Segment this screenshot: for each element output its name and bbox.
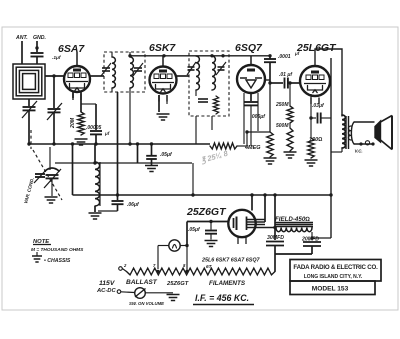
- svg-text:130Ω: 130Ω: [309, 137, 323, 143]
- svg-text:20MFD: 20MFD: [301, 237, 319, 243]
- svg-text:LONG ISLAND CITY, N.Y.: LONG ISLAND CITY, N.Y.: [304, 274, 363, 280]
- svg-text:.0001: .0001: [278, 54, 291, 60]
- svg-text:AC-DC: AC-DC: [96, 288, 116, 294]
- svg-text:MODEL 153: MODEL 153: [312, 286, 349, 293]
- svg-text:6SA7: 6SA7: [58, 43, 85, 55]
- svg-text:8: 8: [183, 263, 186, 268]
- svg-text:6SK7: 6SK7: [149, 42, 176, 54]
- svg-text:M = THOUSAND OHMS: M = THOUSAND OHMS: [31, 247, 84, 253]
- svg-text:.00005: .00005: [86, 125, 102, 131]
- svg-text:μf: μf: [104, 131, 110, 136]
- svg-text:25L6GT: 25L6GT: [296, 42, 337, 54]
- svg-text:GND.: GND.: [33, 35, 46, 41]
- svg-text:μf: μf: [294, 51, 300, 56]
- svg-text:FILAMENTS: FILAMENTS: [209, 280, 246, 287]
- svg-text:115V: 115V: [99, 280, 116, 287]
- svg-text:250M: 250M: [275, 102, 289, 108]
- svg-text:500M: 500M: [276, 123, 289, 129]
- svg-text:ANT.: ANT.: [15, 35, 28, 41]
- svg-text:30MFD: 30MFD: [267, 235, 284, 241]
- svg-text:25L6 6SK7 6SA7 6SQ7: 25L6 6SK7 6SA7 6SQ7: [201, 258, 261, 264]
- svg-text:• CHASSIS: • CHASSIS: [44, 258, 71, 264]
- svg-text:SW. ON VOLUME: SW. ON VOLUME: [129, 301, 164, 306]
- svg-text:6SQ7: 6SQ7: [235, 42, 263, 54]
- svg-text:V.C.: V.C.: [355, 149, 363, 154]
- svg-text:20M: 20M: [70, 117, 76, 129]
- svg-text:℥ 25¼ 8: ℥ 25¼ 8: [199, 149, 229, 166]
- svg-text:.1μf: .1μf: [52, 55, 61, 61]
- svg-text:I.F. = 456 KC.: I.F. = 456 KC.: [195, 293, 249, 303]
- svg-text:2: 2: [123, 263, 127, 268]
- svg-text:FADA RADIO & ELECTRIC CO.: FADA RADIO & ELECTRIC CO.: [293, 264, 378, 271]
- svg-text:4MEG: 4MEG: [244, 145, 261, 151]
- svg-text:.06μf: .06μf: [127, 202, 140, 208]
- svg-text:VAR. COND.: VAR. COND.: [23, 177, 35, 204]
- svg-text:.03μf: .03μf: [312, 103, 325, 109]
- svg-text:.05μf: .05μf: [188, 227, 201, 233]
- svg-text:.01 μf: .01 μf: [279, 72, 293, 78]
- svg-text:.05μf: .05μf: [160, 152, 173, 158]
- svg-text:BALLAST: BALLAST: [126, 279, 158, 286]
- svg-text:7: 7: [153, 263, 156, 268]
- svg-text:25Z6GT: 25Z6GT: [166, 281, 189, 287]
- svg-text:25Z6GT: 25Z6GT: [186, 206, 227, 218]
